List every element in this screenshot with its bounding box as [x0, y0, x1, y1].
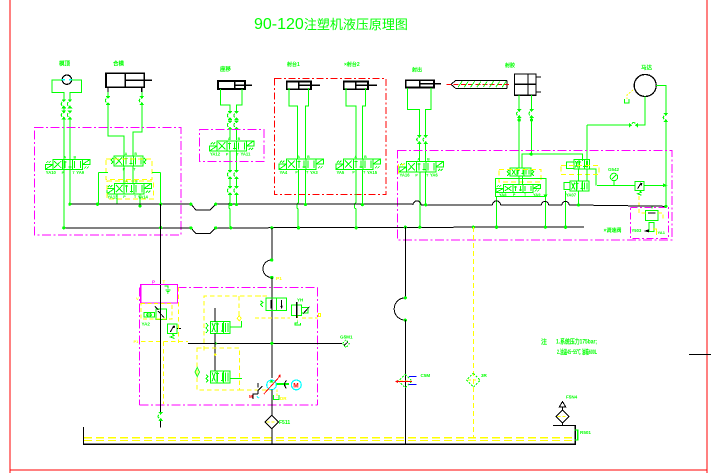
green subplate V9 — [495, 179, 546, 197]
svg-text:G542: G542 — [608, 167, 620, 172]
inject cylinder label — [411, 67, 422, 74]
nozzle cylinders — [515, 74, 541, 95]
injection cylinder 2 — [344, 82, 377, 90]
svg-text:R501: R501 — [580, 430, 591, 435]
yellow drain line vertical — [472, 227, 474, 437]
suction filter F511 — [265, 415, 290, 444]
svg-text:P: P — [295, 171, 298, 175]
svg-text:B: B — [427, 158, 430, 162]
svg-text:B: B — [134, 152, 137, 156]
drawing frame left border — [9, 0, 11, 473]
svg-text:T: T — [426, 173, 429, 177]
title text — [254, 16, 408, 33]
V8 top link to V10 — [522, 154, 582, 168]
right edge mark — [689, 354, 711, 356]
svg-text:C5M: C5M — [421, 373, 431, 378]
rail P dots — [68, 203, 667, 208]
clamp cylinder — [106, 73, 152, 87]
svg-text:×调速阀: ×调速阀 — [604, 227, 622, 234]
motor M circle — [276, 380, 301, 390]
hydraulic motor B1 — [52, 75, 81, 99]
svg-text:射台1: 射台1 — [286, 61, 300, 68]
x speed label — [604, 227, 622, 234]
svg-text:P: P — [226, 152, 229, 156]
nozzle cyl port lines — [517, 95, 534, 168]
aux box yellow dashes — [639, 196, 663, 220]
svg-text:射出: 射出 — [411, 67, 422, 74]
valve YA2 — [142, 307, 167, 327]
svg-text:YA16: YA16 — [400, 173, 411, 178]
pump box yellow dashes — [141, 287, 188, 404]
svg-text:T: T — [306, 171, 309, 175]
svg-text:M: M — [249, 394, 253, 399]
svg-text:P1: P1 — [134, 339, 140, 344]
T port symbol — [165, 286, 171, 293]
svg-text:G5M1: G5M1 — [340, 335, 353, 340]
pump pressure line vertical — [160, 204, 162, 287]
svg-text:A: A — [297, 155, 300, 159]
tank suction line left — [158, 287, 163, 428]
yellow box around V10 — [561, 165, 599, 174]
aux small box bottom-right (magenta) — [631, 208, 669, 239]
svg-text:V: V — [136, 296, 139, 301]
oil motor circle — [634, 75, 656, 97]
injection cylinder 1 — [287, 82, 320, 90]
prop valve 1 — [206, 308, 242, 333]
relief valve pump — [167, 324, 181, 339]
svg-text:A: A — [228, 137, 231, 141]
svg-text:YA8: YA8 — [499, 192, 507, 197]
valve V9 YA7/YA8 — [496, 185, 541, 197]
yellow marks at V7 — [399, 165, 407, 174]
svg-text:YA12: YA12 — [210, 152, 221, 157]
carriage valve lower couplers — [227, 151, 239, 227]
svg-text:合模: 合模 — [113, 60, 125, 68]
injection cylinder 1 label — [286, 61, 300, 68]
svg-text:YA5: YA5 — [337, 170, 345, 175]
yellow dash cluster — [255, 296, 321, 318]
pump unit box (magenta) — [140, 288, 318, 406]
svg-text:T: T — [163, 280, 166, 285]
svg-text:90-120注塑机液压原理图: 90-120注塑机液压原理图 — [254, 16, 408, 33]
oil motor drain mark — [625, 90, 634, 103]
svg-text:射胶: 射胶 — [504, 62, 515, 69]
level gauge R501 — [574, 430, 591, 440]
injection cylinder 2 label — [344, 61, 360, 68]
pump circle — [264, 374, 281, 394]
cyl2 port lines — [346, 88, 366, 158]
oil motor label — [641, 64, 653, 72]
valve V2 proportional — [111, 152, 146, 172]
tank fluid level dashes — [84, 438, 574, 441]
pump DR label — [274, 390, 288, 401]
valve V6 YA5/YA15 — [336, 155, 381, 175]
right big valve box (magenta) — [398, 151, 673, 241]
svg-text:1.系统压力175bar;: 1.系统压力175bar; — [556, 337, 597, 346]
pressure gauge G542 — [610, 173, 618, 185]
valve V7 YA16/YA6 — [399, 158, 444, 178]
svg-text:2.油温45~55℃ 油箱600L: 2.油温45~55℃ 油箱600L — [557, 347, 597, 356]
svg-text:T: T — [237, 152, 240, 156]
svg-text:YH: YH — [297, 298, 303, 303]
drawing frame bottom border — [10, 469, 707, 471]
svg-text:YA3: YA3 — [310, 170, 318, 175]
motor B1 couplers — [61, 99, 72, 228]
svg-text:P: P — [123, 195, 126, 199]
relief valve V18 — [597, 181, 668, 195]
svg-text:YA11: YA11 — [241, 152, 252, 157]
svg-text:YA14: YA14 — [138, 194, 149, 199]
return filter 3R — [467, 373, 488, 387]
oil motor left line — [587, 97, 645, 162]
oil motor right line — [656, 86, 668, 207]
pressure rail P (upper) — [70, 201, 666, 210]
svg-text:×射台2: ×射台2 — [344, 61, 360, 68]
svg-text:3R: 3R — [481, 373, 488, 378]
svg-text:B: B — [364, 155, 367, 159]
main pump line vertical upper — [271, 228, 273, 260]
cartridge valve V15 — [260, 298, 286, 311]
yellow box around V3 — [107, 181, 153, 199]
tank rail T (lower) — [64, 227, 584, 234]
inject cylinder port lines — [408, 88, 431, 161]
svg-text:F511: F511 — [279, 420, 290, 426]
svg-text:DR: DR — [280, 396, 287, 401]
cyl1 port lines — [289, 88, 309, 158]
valve V3 YA13/YA14 — [107, 179, 151, 199]
carriage cylinder port lines — [221, 89, 242, 140]
V7 below lines — [420, 172, 426, 226]
pump box solid rect — [141, 285, 178, 304]
valve V5 YA4/YA3 — [279, 155, 324, 175]
hydraulic motor B1 label — [59, 60, 71, 68]
svg-text:Y503: Y503 — [632, 228, 642, 233]
pump box port labels — [134, 280, 166, 345]
drawing frame right border — [706, 0, 708, 473]
V10-V11 links — [566, 169, 587, 227]
svg-text:YA6: YA6 — [430, 173, 438, 178]
carriage cylinder — [218, 81, 252, 89]
svg-text:T: T — [72, 171, 75, 175]
svg-text:A: A — [417, 158, 420, 162]
valve V8 proportional — [507, 168, 534, 176]
valve V1 YA10/YA9 — [45, 156, 90, 175]
main line break arc — [263, 258, 273, 279]
svg-text:YA2: YA2 — [142, 322, 151, 327]
svg-text:马达: 马达 — [641, 64, 653, 72]
svg-text:YA07: YA07 — [566, 193, 577, 198]
svg-text:B: B — [307, 155, 310, 159]
valve V10 small — [567, 160, 590, 170]
svg-text:YA9: YA9 — [533, 192, 541, 197]
svg-text:YA15: YA15 — [367, 170, 378, 175]
svg-text:注: 注 — [541, 338, 547, 346]
prop valve box yellow — [204, 296, 267, 352]
main pump line vertical — [271, 278, 273, 379]
cooler C5M — [395, 373, 431, 388]
V2-V3 links — [99, 166, 161, 206]
prop valve 1 top links — [188, 333, 342, 371]
svg-text:座移: 座移 — [219, 65, 232, 73]
tank outline — [84, 426, 576, 445]
right return vertical upper — [404, 227, 406, 298]
svg-text:YA9: YA9 — [76, 170, 84, 175]
notes — [541, 337, 597, 357]
V8-V9 links — [497, 153, 548, 228]
svg-text:B: B — [73, 156, 76, 160]
filler breather F5N4 — [556, 395, 578, 426]
clamp cylinder port lines — [105, 87, 144, 155]
lower yellow link — [240, 389, 272, 391]
G5M1 port — [270, 335, 353, 348]
pump drain marks — [249, 383, 262, 399]
svg-text:A: A — [125, 152, 128, 156]
injection screw barrel — [447, 80, 511, 88]
svg-text:T: T — [134, 195, 137, 199]
svg-text:T: T — [363, 171, 366, 175]
lower yellow box — [195, 348, 240, 390]
rail T dots — [62, 226, 567, 230]
svg-text:F5N4: F5N4 — [566, 395, 578, 400]
svg-text:YA10: YA10 — [46, 170, 57, 175]
aux valve in small box — [632, 206, 666, 235]
right line break arc — [394, 296, 407, 322]
pump suction vertical — [271, 390, 273, 415]
valve V11 YA07 — [564, 181, 589, 197]
P1 label — [270, 276, 282, 282]
svg-text:M: M — [293, 382, 298, 389]
nozzle cylinders label — [504, 62, 515, 69]
yellow box around V2 — [106, 159, 152, 180]
svg-text:A: A — [354, 155, 357, 159]
right return vertical — [404, 320, 406, 444]
svg-text:B: B — [238, 137, 241, 141]
valve V4 YA12/YA11 — [210, 137, 255, 157]
pressure gauge G542 label — [608, 167, 620, 172]
svg-text:模顶: 模顶 — [59, 60, 71, 68]
svg-text:T: T — [133, 167, 136, 171]
V10 right elbow — [589, 169, 595, 185]
svg-text:P: P — [152, 280, 155, 285]
svg-text:P: P — [352, 171, 355, 175]
svg-text:YA1: YA1 — [658, 230, 666, 235]
small valve box (magenta) — [200, 130, 265, 162]
inject cylinder — [406, 80, 441, 87]
svg-text:YA4: YA4 — [280, 170, 288, 175]
YH pilot valve — [291, 298, 309, 325]
clamp cylinder label — [113, 60, 125, 68]
V5 below lines — [297, 169, 306, 228]
yellow box around V8 — [499, 170, 541, 183]
svg-text:P: P — [415, 173, 418, 177]
V6 below lines — [355, 169, 363, 228]
left valve group box (magenta) — [35, 128, 182, 236]
red group box — [275, 79, 387, 195]
svg-text:A: A — [64, 156, 67, 160]
svg-text:P1: P1 — [276, 276, 282, 282]
prop valve 2 — [206, 371, 242, 383]
carriage cylinder label — [219, 65, 232, 73]
